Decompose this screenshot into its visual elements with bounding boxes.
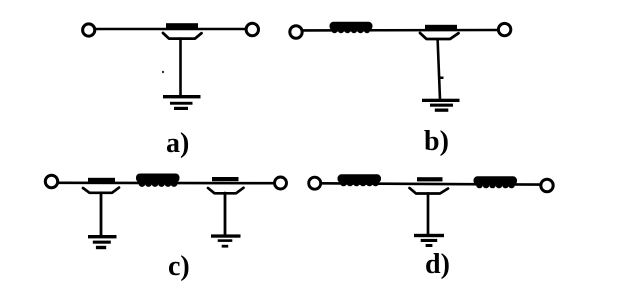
svg-text:c): c) (168, 251, 190, 282)
svg-text:b): b) (424, 126, 449, 157)
svg-text:a): a) (166, 128, 189, 159)
svg-text:d): d) (425, 249, 450, 280)
